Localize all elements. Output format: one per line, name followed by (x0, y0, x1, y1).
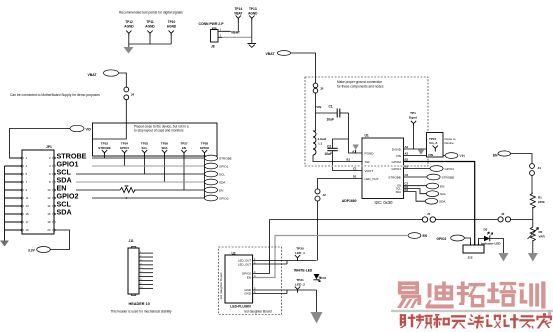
dashed box bottom over U1 (306, 165, 428, 167)
ground below R2 (528, 253, 538, 262)
svg-text:TP14: TP14 (234, 7, 242, 11)
svg-text:VBAT: VBAT (88, 73, 98, 77)
svg-text:SDA: SDA (439, 200, 446, 204)
wire J4 to R1 (531, 175, 533, 193)
wire TP26 drop (164, 156, 166, 182)
svg-text:This header is used for mechan: This header is used for mechanical stabi… (111, 310, 172, 314)
svg-text:SCL: SCL (142, 146, 148, 150)
wire net SCL row (54, 205, 57, 207)
net label GPIO1 bold (56, 160, 92, 167)
svg-text:C2: C2 (327, 144, 331, 148)
svg-text:VIO: VIO (86, 128, 92, 132)
watermark subtitle char ji (503, 315, 506, 318)
svg-text:AGND: AGND (124, 25, 134, 29)
svg-text:11: 11 (26, 196, 29, 200)
wire TP14 drop (237, 22, 239, 32)
wire TP28 drop (204, 156, 206, 198)
net label SCL bold (56, 200, 76, 207)
svg-text:B1: B1 (347, 158, 351, 162)
watermark title char 2 (di) (428, 283, 432, 297)
svg-text:17: 17 (26, 220, 30, 224)
net flag EN mid (408, 233, 421, 239)
svg-text:SCL: SCL (440, 192, 446, 196)
watermark subtitle char she2 (486, 315, 489, 318)
svg-text:J8: J8 (211, 45, 215, 49)
svg-text:STROBE: STROBE (98, 146, 111, 150)
svg-text:D1: D1 (353, 174, 357, 178)
svg-text:J3: J3 (501, 212, 505, 216)
ground daughter board (311, 312, 323, 324)
wire J6 down into box (93, 100, 127, 139)
svg-text:GPIO1: GPIO1 (445, 167, 455, 171)
wire GPIO2 to J12 (464, 238, 470, 245)
svg-text:GPIO2: GPIO2 (437, 237, 447, 241)
wire VBAT from J8 pin1 (222, 30, 238, 32)
svg-text:LED_1: LED_1 (295, 251, 305, 255)
wire LED_OUT from U1 (318, 179, 363, 190)
svg-text:VBAT: VBAT (231, 30, 241, 34)
net flag SDA (204, 179, 217, 185)
svg-text:TP11: TP11 (146, 20, 154, 24)
test point box TP15 Vin_A (427, 133, 444, 158)
svg-text:20: 20 (47, 228, 51, 232)
svg-text:10: 10 (47, 188, 51, 192)
wire L1 to SW (313, 155, 362, 162)
svg-text:U1: U1 (365, 133, 369, 137)
svg-text:GPIO2: GPIO2 (392, 160, 402, 164)
svg-text:led daughter Board: led daughter Board (244, 310, 271, 314)
svg-text:J6: J6 (131, 93, 135, 97)
wire net GPIO2 row (54, 197, 205, 199)
net flag EN (426, 183, 438, 189)
svg-text:VIN: VIN (316, 105, 321, 109)
svg-text:C2: C2 (405, 173, 409, 177)
wire C2 to VOUT (333, 151, 363, 171)
wire net EN row (54, 189, 120, 191)
ground AGND (128, 44, 130, 47)
svg-text:TP30: TP30 (296, 246, 304, 250)
svg-text:TP10: TP10 (168, 20, 176, 24)
svg-text:SDA: SDA (57, 207, 72, 216)
watermark underline (391, 310, 553, 312)
svg-text:TP31: TP31 (296, 278, 304, 282)
svg-text:L1: L1 (319, 141, 323, 145)
svg-text:GPIO1: GPIO1 (392, 167, 402, 171)
svg-text:led daughter Board: led daughter Board (219, 272, 223, 299)
svg-text:SDA: SDA (219, 180, 226, 184)
LED D3 indicator (484, 236, 490, 242)
svg-text:DGND: DGND (392, 148, 402, 152)
svg-text:GPIO1: GPIO1 (219, 164, 229, 168)
jumper J6 (124, 87, 129, 92)
svg-text:Indicator LED: Indicator LED (481, 241, 501, 245)
svg-text:STROBE: STROBE (219, 156, 232, 160)
svg-text:AGND: AGND (248, 11, 258, 15)
watermark subtitle char xian (468, 323, 475, 325)
svg-text:EN: EN (440, 184, 444, 188)
svg-text:GND: GND (244, 292, 252, 296)
ground left bus (0, 241, 9, 247)
net flag GPIO2 (204, 195, 217, 201)
wire TP24 drop (124, 156, 126, 166)
svg-text:VOUT: VOUT (365, 169, 374, 173)
svg-text:D3: D3 (484, 227, 488, 231)
net label SDA bold (56, 176, 76, 183)
wire GND tie (286, 290, 288, 294)
resistor R1 240k (530, 193, 535, 208)
svg-text:J4: J4 (538, 166, 542, 170)
wire to AGND symbol (251, 37, 253, 43)
svg-text:LED_2: LED_2 (295, 283, 305, 287)
net label EN bold (56, 184, 76, 191)
svg-text:for these components and nodes: for these components and nodes (337, 84, 384, 88)
dashed box: led daughter board (219, 247, 282, 315)
wire TP12 drop (128, 37, 130, 45)
wire net SCL row (54, 173, 205, 175)
svg-text:10uF: 10uF (325, 152, 332, 156)
svg-text:ADP1660: ADP1660 (342, 199, 357, 203)
wire TP27 drop (183, 156, 185, 190)
watermark title char 5 (xun) (519, 283, 525, 287)
svg-text:VIN: VIN (460, 154, 466, 158)
svg-text:LED-PLUGIN: LED-PLUGIN (230, 304, 251, 308)
wire net SDA row (54, 213, 57, 215)
svg-text:SDA: SDA (161, 146, 168, 150)
pin 2 of J8 (218, 36, 222, 38)
svg-text:J12: J12 (467, 256, 472, 260)
ground below D3 (499, 253, 509, 262)
watermark subtitle char zhuan (521, 315, 534, 317)
wire net SDA row (54, 181, 205, 183)
svg-text:WHITE-LED: WHITE-LED (294, 268, 313, 272)
net VBAT label (231, 29, 243, 34)
svg-text:240k: 240k (538, 200, 545, 204)
svg-text:STROBE: STROBE (442, 175, 455, 179)
svg-text:TP1: TP1 (410, 111, 416, 115)
svg-text:14: 14 (47, 204, 51, 208)
svg-text:J11: J11 (129, 239, 134, 243)
wire TP11 drop (149, 37, 151, 45)
wire LED_OUT tie (286, 261, 288, 265)
wire VBAT to J5 (291, 53, 316, 83)
svg-text:GPIO2: GPIO2 (219, 196, 229, 200)
svg-text:C3: C3 (405, 181, 409, 185)
svg-text:STROBE: STROBE (388, 176, 401, 180)
svg-text:SW: SW (365, 160, 370, 164)
resistor R3 (120, 187, 135, 192)
svg-text:to stop layout of caps and mon: to stop layout of caps and monitors (134, 129, 184, 133)
wire TP23 drop (104, 156, 106, 158)
net flag GPIO1 (204, 163, 217, 169)
svg-text:C1: C1 (353, 167, 357, 171)
connector J12 (463, 245, 484, 253)
svg-text:GPIO2: GPIO2 (200, 146, 210, 150)
wire TP13 drop (251, 22, 253, 38)
wire left pin bus (5, 165, 23, 167)
jumper J2 (315, 189, 320, 194)
svg-text:VBAT: VBAT (234, 11, 242, 15)
watermark subtitle char she (400, 314, 402, 326)
watermark subtitle char pin (419, 314, 421, 322)
capacitor C2 10uF (333, 139, 349, 148)
wire R1 to node (532, 207, 534, 220)
net flag SCL (426, 191, 438, 197)
watermark subtitle char jia (543, 313, 546, 316)
net flag SDA (425, 198, 437, 204)
wire EN to J4 (511, 154, 532, 164)
wire GND net (287, 289, 317, 291)
svg-text:A1: A1 (352, 150, 356, 154)
svg-text:19: 19 (26, 228, 30, 232)
ground AGND symbol (248, 43, 257, 45)
jumper J5 (313, 83, 318, 88)
svg-text:Dgnd: Dgnd (409, 116, 417, 120)
svg-text:13: 13 (26, 204, 30, 208)
svg-text:Vin_A: Vin_A (429, 141, 438, 145)
svg-text:EN: EN (219, 188, 223, 192)
wire VBAT to J6 (119, 73, 127, 87)
svg-text:C1: C1 (329, 104, 333, 108)
wire J2 down to white LED net (317, 201, 319, 260)
svg-text:AGND: AGND (145, 25, 155, 29)
svg-text:3.3V: 3.3V (28, 248, 36, 252)
svg-text:B3: B3 (405, 165, 409, 169)
ground arrow on PGND (A1) (352, 145, 359, 150)
svg-text:PGND: PGND (365, 152, 375, 156)
svg-text:SCL: SCL (219, 172, 225, 176)
watermark title char 4 (pei) (491, 282, 495, 302)
wire GND to board ground (316, 290, 318, 312)
wire D3 branch from J12 (479, 239, 485, 246)
svg-text:12: 12 (47, 196, 51, 200)
jumper J4 (530, 164, 535, 169)
net flag EN (204, 187, 217, 193)
wire 3.3V from JP1 pin20 (50, 230, 70, 250)
svg-text:J2: J2 (323, 193, 327, 197)
watermark subtitle char tian (451, 315, 466, 317)
svg-text:EN: EN (247, 276, 251, 280)
LED D1 white (314, 274, 320, 279)
svg-text:LED_OUT: LED_OUT (238, 262, 251, 266)
svg-text:AGND: AGND (167, 25, 177, 29)
svg-text:Can be connected to MotherBoar: Can be connected to MotherBoard Supply f… (10, 93, 100, 97)
svg-text:D1: D1 (323, 276, 327, 280)
wire AGND from J8 pin2 (222, 36, 252, 38)
svg-text:15: 15 (26, 212, 30, 216)
net flag GPIO1 (430, 166, 443, 172)
net flag STROBE (427, 174, 440, 180)
svg-text:SDA: SDA (396, 190, 402, 194)
capacitor C1 10uF (316, 112, 338, 114)
svg-text:Recommended test points for di: Recommended test points for digital sign… (119, 11, 183, 15)
pin 1 of J8 (218, 30, 222, 32)
wire D3 to ground (490, 239, 504, 254)
resistor R2 VAR (530, 227, 535, 241)
svg-text:VIN: VIN (396, 154, 401, 158)
svg-text:I2C: 0x30: I2C: 0x30 (375, 200, 394, 205)
wire R2 to ground (532, 240, 534, 253)
svg-text:EN: EN (493, 153, 498, 157)
wire TP25 drop (144, 156, 146, 174)
svg-text:J7: J7 (427, 212, 431, 216)
wire GPIO2 line to daughter board (253, 220, 270, 274)
svg-text:HEADER 10: HEADER 10 (129, 302, 150, 306)
wire node to R2 (532, 220, 534, 228)
watermark title char 1 (yi) (398, 281, 419, 285)
svg-text:VIN: VIN (428, 153, 433, 157)
wire TP10 drop (170, 37, 172, 45)
wire EN to daughter board (253, 236, 409, 278)
svg-text:LED_OUT: LED_OUT (365, 177, 379, 181)
wire net GPIO1 row (54, 165, 205, 167)
wire JP1 pin1 to VIO (10, 129, 71, 159)
net flag VIN (445, 153, 458, 159)
inductor L1 4.9uH (313, 131, 316, 155)
net label STROBE bold (56, 152, 92, 159)
svg-text:VAR: VAR (539, 234, 546, 238)
svg-text:VBAT: VBAT (266, 52, 276, 56)
wire LED return line (270, 219, 423, 221)
net flag SCL (204, 171, 217, 177)
svg-text:EN: EN (182, 146, 186, 150)
svg-text:TP12: TP12 (125, 20, 133, 24)
net label GPIO2 bold (56, 192, 92, 199)
svg-text:R3: R3 (125, 184, 129, 188)
watermark title char 3 (tuo) (461, 281, 465, 302)
wire AGND bus (129, 43, 171, 45)
svg-text:A3: A3 (405, 151, 409, 155)
wire SDA jog (404, 192, 426, 202)
svg-text:JP1: JP1 (46, 145, 52, 149)
svg-text:10uF: 10uF (327, 118, 334, 122)
svg-text:EN: EN (423, 234, 428, 238)
net flag STROBE (204, 155, 217, 161)
svg-text:A2: A2 (405, 145, 409, 149)
svg-text:16: 16 (47, 212, 51, 216)
svg-text:TP13: TP13 (249, 7, 257, 11)
wire C1 to PGND node (349, 113, 363, 153)
svg-text:J5: J5 (320, 87, 324, 91)
net VIO label (70, 125, 84, 131)
wire white LED net (287, 260, 317, 262)
net label SCL bold (56, 168, 76, 175)
watermark subtitle char he (436, 316, 438, 328)
note box: placed close to device (93, 123, 218, 156)
wire net STROBE row (54, 157, 205, 159)
svg-text:GPIO1: GPIO1 (120, 146, 130, 150)
net label SDA bold (56, 208, 76, 215)
svg-text:CONN PWR 2-P: CONN PWR 2-P (199, 22, 225, 26)
ground arrow DGND (418, 149, 425, 155)
svg-text:Device: Device (445, 141, 455, 145)
wire J5 to VIN node (315, 93, 317, 131)
svg-text:18: 18 (47, 220, 51, 224)
dashed box: ground region note (305, 77, 428, 166)
wire GPIO2 to J12 (404, 162, 475, 246)
wire SCL jog (404, 189, 427, 194)
